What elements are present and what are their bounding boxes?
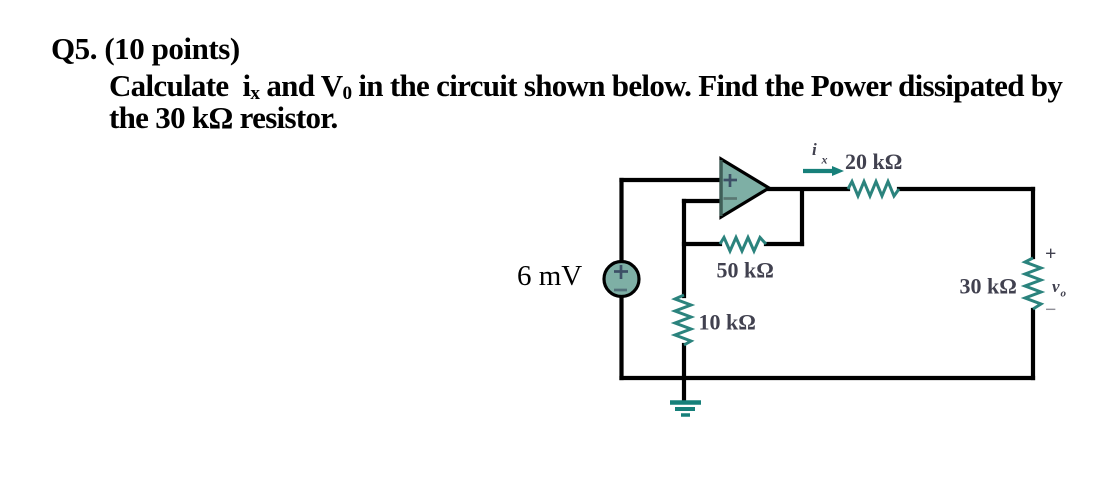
svg-text:20 kΩ: 20 kΩ bbox=[845, 149, 902, 174]
svg-text:10 kΩ: 10 kΩ bbox=[699, 310, 756, 335]
svg-text:o: o bbox=[1061, 288, 1067, 300]
svg-text:+: + bbox=[1045, 243, 1056, 265]
svg-text:−: − bbox=[1045, 299, 1056, 321]
svg-text:i: i bbox=[812, 140, 817, 159]
svg-text:v: v bbox=[1052, 277, 1060, 296]
svg-text:x: x bbox=[821, 153, 828, 167]
svg-text:30 kΩ: 30 kΩ bbox=[960, 274, 1017, 299]
svg-text:50 kΩ: 50 kΩ bbox=[717, 258, 774, 283]
